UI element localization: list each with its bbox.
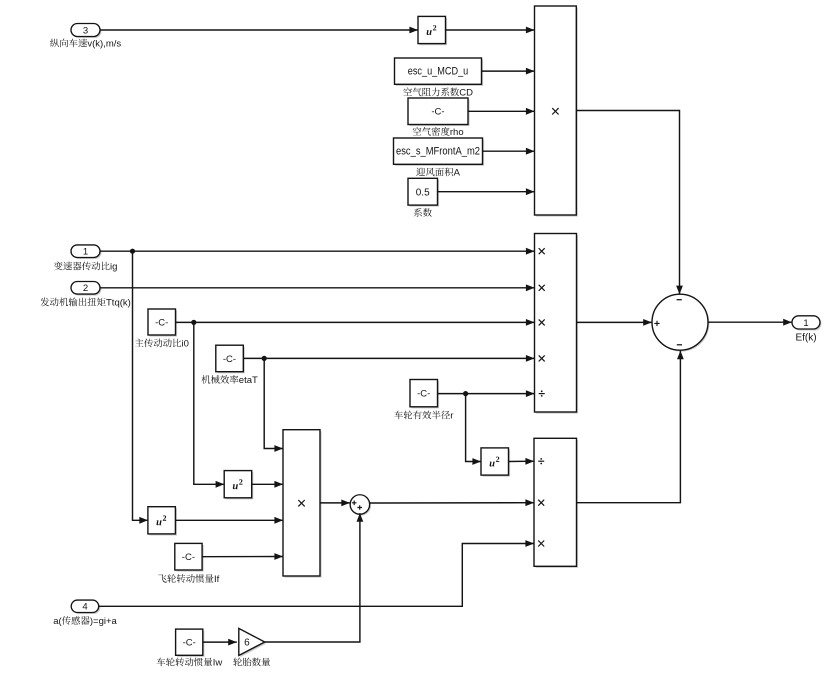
wire G1 output to sum S2 bottom (+) (265, 513, 364, 642)
wire u^2 bottom-right to P4 input1 (509, 458, 535, 465)
wire junction ig down to u^2 (left) (133, 251, 148, 524)
label: mechanical efficiency etaT (202, 375, 259, 386)
svg-text:3: 3 (83, 26, 88, 37)
svg-text:a(: a( (53, 616, 62, 627)
svg-text:Ttq(k): Ttq(k) (106, 298, 131, 309)
product block P3 (x) (283, 430, 322, 578)
label: air density rho (413, 127, 464, 138)
gain block G1 (6) (239, 628, 266, 657)
constant block -C- (If) (175, 543, 204, 571)
constant block -C- (Iw) (176, 629, 205, 657)
product block P1 (x) (535, 6, 578, 217)
label inport 2: engine output torque Ttq(k) (41, 298, 131, 309)
svg-text:0.5: 0.5 (416, 187, 430, 198)
wire -C- Iw to gain G1 (203, 639, 237, 646)
outport 1 (792, 316, 822, 331)
svg-text:A: A (454, 168, 461, 179)
label inport 1: transmission ratio ig (54, 262, 118, 273)
svg-text:-C-: -C- (183, 638, 196, 649)
svg-text:esc_u_MCD_u: esc_u_MCD_u (408, 65, 469, 77)
constant block 0.5 (408, 178, 439, 206)
svg-text:esc_s_MFrontA_m2: esc_s_MFrontA_m2 (396, 145, 480, 157)
wire P3 output to sum S2 left (+) (320, 500, 350, 507)
wire P2 output to sum S1 left (+) (577, 319, 652, 326)
sum block S1 (circle - + -) (652, 294, 709, 351)
constant block -C- (i0) (148, 309, 177, 337)
label: air drag coefficient CD (403, 88, 473, 99)
inport 2 (71, 282, 102, 296)
wire u^2 left to P3 input3 (175, 517, 283, 524)
wire u^2 middle to P3 input2 (252, 481, 283, 488)
svg-text:i0: i0 (182, 339, 189, 350)
svg-text:-C-: -C- (155, 317, 168, 328)
svg-text:r: r (450, 411, 453, 422)
wire S1 output to outport 1 (708, 319, 792, 326)
wire S2 output to P4 input2 (370, 499, 534, 506)
wire inport2 to P2 input2 (100, 284, 535, 291)
label outport: Ef(k) (795, 332, 816, 343)
inport 3 (71, 24, 102, 39)
math function block u^2 (middle) (224, 471, 253, 500)
constant block -C- (rho) (408, 98, 470, 126)
svg-text:rho: rho (450, 127, 464, 138)
svg-text:1: 1 (803, 318, 808, 329)
wire -C- r to P2 input5 (junction) (438, 390, 535, 397)
wire u^2 to product P1 input1 (446, 27, 535, 34)
wire -C- If to P3 input4 (202, 553, 283, 560)
wire P1 output to sum S1 top (-) (576, 111, 683, 295)
svg-text:If: If (214, 574, 220, 585)
math function block u^2 (bottom right) (481, 448, 510, 477)
svg-text:-C-: -C- (182, 552, 195, 563)
wire esc_u_MCD_u to P1 input2 (482, 68, 535, 75)
wire -C- i0 to P2 input3 (junction) (176, 319, 535, 326)
svg-text:2: 2 (83, 283, 88, 294)
wire inport1 to product P2 input1 (junction) (100, 248, 535, 255)
wire 0.5 to P1 input5 (438, 188, 535, 195)
svg-text:Ef(k): Ef(k) (795, 332, 816, 343)
label: number of tires (233, 658, 270, 667)
svg-text:-C-: -C- (417, 389, 430, 400)
svg-text:1: 1 (83, 247, 88, 258)
label inport 4: a(sensor)=gi+a (53, 616, 117, 627)
inport 4 (71, 600, 100, 614)
wire inport4 to P4 input3 (99, 540, 534, 606)
wire junction r down to u^2 (bottom right) (466, 394, 481, 465)
wire -C- rho to P1 input3 (468, 108, 535, 115)
constant block -C- (r) (410, 380, 439, 409)
sum block S2 (circle + +) (350, 495, 371, 516)
constant block esc_u_MCD_u (395, 58, 484, 86)
wire junction etaT down to product P3 input1 (264, 358, 283, 452)
label: frontal area A (416, 168, 460, 179)
label inport 3: longitudinal speed v(k),m/s (50, 39, 121, 50)
wire inport3 to u^2 block (100, 27, 418, 34)
math function block u^2 (top) (418, 16, 447, 45)
inport 1 (71, 245, 102, 259)
constant block -C- (etaT) (216, 345, 245, 373)
svg-text:v(k),m/s: v(k),m/s (87, 39, 121, 50)
svg-text:6: 6 (244, 637, 250, 648)
svg-text:4: 4 (82, 602, 87, 613)
wire esc_s_MFrontA_m2 to P1 input4 (483, 148, 535, 155)
math function block u^2 (left) (148, 507, 177, 536)
svg-text:)=gi+a: )=gi+a (90, 616, 118, 627)
svg-text:Iw: Iw (213, 658, 223, 669)
label: final drive ratio i0 (135, 339, 189, 350)
constant block esc_s_MFrontA_m2 (394, 138, 485, 166)
wire P4 output to sum S1 bottom (-) (577, 351, 684, 503)
label: flywheel inertia If (158, 574, 219, 585)
wire -C- etaT to P2 input4 (junction) (243, 355, 534, 362)
svg-text:ig: ig (110, 262, 117, 273)
svg-text:-C-: -C- (431, 107, 444, 118)
svg-text:-C-: -C- (223, 354, 236, 365)
label: wheel inertia Iw (157, 658, 223, 669)
svg-text:etaT: etaT (239, 375, 258, 386)
label: wheel effective radius r (394, 411, 453, 422)
wire junction i0 down to u^2 (middle) (194, 322, 224, 487)
svg-text:CD: CD (459, 88, 473, 99)
product block P2 (xxxx/) (535, 234, 579, 414)
product block P4 (/xx) (534, 438, 578, 568)
label: coefficient (414, 208, 432, 217)
